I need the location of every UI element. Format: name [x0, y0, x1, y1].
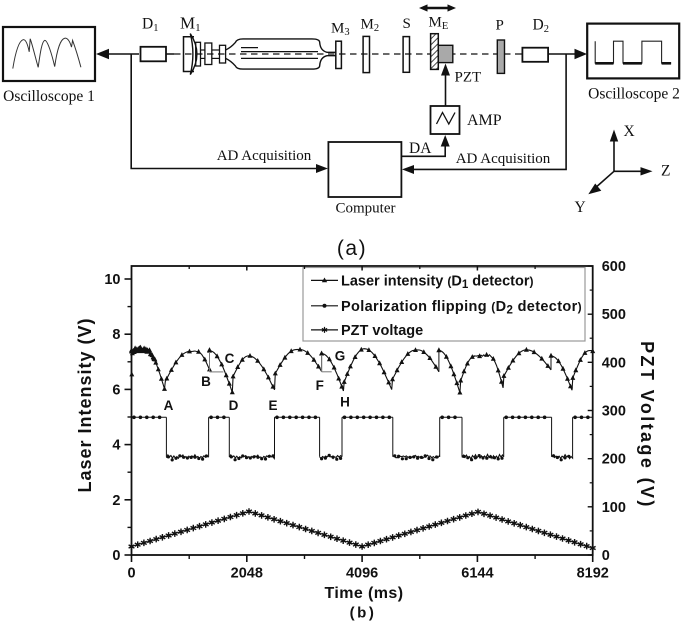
polarizer P: [496, 18, 505, 74]
wire: AMP to PZT with arrowhead: [441, 64, 481, 107]
svg-text:Y: Y: [575, 199, 586, 216]
svg-text:PZT voltage: PZT voltage: [341, 323, 423, 339]
svg-text:300: 300: [602, 404, 626, 420]
svg-text:E: E: [268, 398, 277, 413]
curve: laser intensity (D1) with triangle markers: [129, 345, 595, 395]
svg-text:Laser intensity (D1 detector): Laser intensity (D1 detector): [341, 273, 534, 291]
point labels A-H: [164, 349, 350, 414]
annotation step F-G: [322, 355, 332, 372]
svg-text:0: 0: [602, 548, 610, 564]
left axis tick labels: [104, 272, 120, 564]
svg-text:Oscilloscope 2: Oscilloscope 2: [588, 86, 680, 103]
svg-text:6: 6: [112, 382, 120, 398]
svg-text:Computer: Computer: [336, 201, 396, 217]
svg-text:(b): (b): [350, 605, 377, 622]
mirror M3: [331, 21, 350, 69]
svg-text:0: 0: [127, 566, 135, 582]
mounting stack between M1 and tube: [196, 42, 226, 66]
svg-text:P: P: [496, 18, 504, 34]
oscilloscope 2: [587, 24, 680, 103]
svg-text:B: B: [201, 374, 211, 389]
PZT actuator block: [438, 45, 453, 62]
svg-text:500: 500: [602, 307, 626, 323]
svg-text:0: 0: [112, 548, 120, 564]
svg-text:Laser Intensity (V): Laser Intensity (V): [75, 317, 95, 492]
svg-text:Oscilloscope 1: Oscilloscope 1: [3, 88, 95, 105]
svg-text:(a): (a): [337, 237, 367, 260]
svg-text:G: G: [335, 349, 346, 364]
wire: dashed optical beam axis: [166, 53, 174, 55]
svg-text:6144: 6144: [461, 566, 493, 582]
curve: PZT voltage triangle wave with star markers: [129, 508, 596, 551]
detector D2: [522, 17, 549, 62]
svg-text:10: 10: [104, 272, 120, 288]
svg-text:4: 4: [112, 438, 120, 454]
shutter S: [403, 16, 411, 72]
mirror ME (hatched, on PZT): [429, 15, 449, 70]
detector D1: [141, 16, 167, 62]
svg-text:C: C: [225, 351, 235, 366]
mirror M1 (concave): [180, 14, 201, 75]
legend box: [303, 268, 585, 342]
svg-text:AMP: AMP: [467, 112, 502, 129]
curve: polarization flipping square wave (D2): [132, 415, 593, 461]
svg-text:A: A: [164, 398, 174, 413]
svg-text:S: S: [403, 16, 411, 32]
svg-text:200: 200: [602, 452, 626, 468]
wire: D1 to oscilloscope 1 with arrowhead: [96, 49, 139, 59]
wire: D2 to oscilloscope 2 with arrowhead: [548, 49, 587, 59]
legend entry: laser intensity: [311, 273, 534, 291]
svg-text:D: D: [229, 398, 239, 413]
svg-text:Time (ms): Time (ms): [325, 585, 404, 602]
right axis tick labels: [602, 259, 626, 564]
annotation step B-C: [210, 352, 224, 372]
oscilloscope 1: [3, 27, 95, 105]
bottom axis tick labels: [127, 566, 608, 582]
svg-text:Polarization flipping (D2 dete: Polarization flipping (D2 detector): [341, 299, 582, 317]
wire: branch from D2 line down to AD Acquisition (right): [402, 54, 566, 174]
axis ticks: [125, 266, 593, 562]
amplifier AMP: [431, 106, 502, 134]
svg-text:Z: Z: [661, 163, 670, 180]
svg-text:PZT Voltage (V): PZT Voltage (V): [637, 341, 657, 509]
svg-text:600: 600: [602, 259, 626, 275]
svg-text:8: 8: [112, 327, 120, 343]
mirror M2: [361, 17, 380, 73]
wire: branch from D1 line down to AD Acquisition (left): [131, 54, 328, 173]
svg-text:100: 100: [602, 500, 626, 516]
svg-text:PZT: PZT: [455, 70, 482, 86]
coordinate axes X Y Z: [575, 123, 671, 216]
legend entry: PZT voltage: [311, 323, 423, 339]
svg-text:2: 2: [112, 493, 120, 509]
svg-text:AD Acquisition: AD Acquisition: [456, 151, 551, 167]
svg-text:F: F: [316, 378, 324, 393]
computer: [328, 142, 401, 217]
svg-text:DA: DA: [409, 140, 432, 157]
legend entry: polarization flipping: [311, 299, 582, 317]
svg-text:4096: 4096: [346, 566, 378, 582]
double-headed arrow above ME: [419, 4, 456, 11]
wire: computer DA output to AMP with arrowhead: [402, 135, 450, 157]
svg-text:AD Acquisition: AD Acquisition: [217, 148, 312, 164]
svg-text:8192: 8192: [577, 566, 609, 582]
svg-text:X: X: [624, 123, 635, 140]
laser tube: [226, 39, 336, 69]
svg-text:H: H: [340, 395, 350, 410]
svg-text:2048: 2048: [231, 566, 263, 582]
top axis ticks (inward): [189, 266, 535, 271]
svg-text:400: 400: [602, 355, 626, 371]
plot frame: [132, 266, 593, 555]
